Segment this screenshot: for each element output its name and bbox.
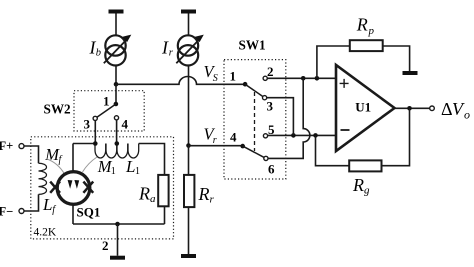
wire contact 2 to op-amp + input: [267, 77, 336, 79]
wire Rr to ground: [188, 207, 190, 254]
wire ground to Ir: [188, 14, 190, 36]
svg-text:F−: F−: [0, 205, 13, 219]
inductor L1 (tapped coil): [95, 144, 139, 159]
coil top wire (right part) to Ra: [139, 144, 165, 175]
svg-text:SW2: SW2: [44, 101, 72, 116]
output junction dot: [407, 106, 412, 111]
svg-text:g: g: [364, 185, 370, 197]
svg-text:I: I: [161, 38, 169, 58]
svg-text:SQ1: SQ1: [77, 205, 101, 220]
SW1 contact 3 circle: [263, 96, 267, 100]
op-amp output wire: [395, 107, 430, 109]
op-amp - symbol: [341, 129, 350, 131]
current source Ir: [178, 35, 198, 65]
wire ground to Ib: [115, 14, 117, 36]
wire contact 3 to - node: [267, 98, 294, 136]
svg-text:Δ: Δ: [441, 99, 453, 119]
josephson junction right (X): [83, 182, 93, 193]
ground bar (top, above Ir): [181, 10, 196, 14]
svg-text:r: r: [210, 193, 215, 205]
svg-text:3: 3: [267, 99, 274, 114]
svg-text:4.2K: 4.2K: [34, 227, 57, 239]
svg-text:S: S: [213, 73, 218, 84]
coil tap dot (contact 4 of SW2): [115, 141, 120, 146]
SW1 pole 1 arm: [245, 84, 263, 96]
wire Vr down to Rr: [188, 146, 190, 175]
svg-text:R: R: [356, 14, 368, 34]
bottom wire (node 2): [73, 223, 165, 225]
wire Ra bottom: [164, 206, 166, 224]
svg-text:F+: F+: [0, 139, 13, 153]
ground bar (Rr): [181, 254, 196, 258]
svg-text:o: o: [464, 108, 470, 122]
wire F+ to coil: [24, 146, 39, 163]
SW2 contact 4 circle: [114, 116, 118, 120]
josephson junction left (X): [50, 182, 60, 193]
wire SQUID top: [72, 144, 74, 172]
wire SQUID bottom: [72, 204, 74, 224]
svg-text:6: 6: [268, 162, 275, 177]
wire Ir down to node Vr: [188, 66, 190, 146]
output terminal circle: [430, 106, 435, 111]
wire Ib to node VS: [115, 66, 117, 85]
coil tap dot (contact 3 of SW2): [93, 141, 98, 146]
resistor Rg: [349, 160, 381, 171]
svg-text:4: 4: [122, 117, 129, 132]
node 2 junction dot: [115, 222, 120, 227]
junction dot (+ node, contact6 riser): [301, 76, 306, 81]
SW1 pole 2 pivot dot: [240, 144, 245, 149]
4.2K cryostat box: [31, 137, 174, 239]
junction dot (- node, Rg drop): [313, 133, 318, 138]
svg-text:R: R: [198, 184, 210, 204]
svg-text:2: 2: [102, 238, 109, 253]
coil top wire (left part): [73, 143, 95, 145]
svg-text:4: 4: [230, 130, 237, 145]
wire node 2 to ground: [117, 224, 119, 256]
SW2 contact 3 circle: [93, 116, 97, 120]
wire SW2 contact 3 down to coil tap: [94, 121, 96, 144]
svg-text:L: L: [125, 157, 135, 176]
wire contact 5 to op-amp - input: [268, 134, 336, 136]
svg-text:p: p: [368, 25, 375, 37]
op-amp U1: [336, 65, 395, 151]
wire Rg to output: [382, 108, 410, 165]
resistor Rp: [350, 40, 383, 51]
current source Ib: [105, 35, 125, 65]
svg-text:R: R: [352, 175, 364, 195]
svg-text:2: 2: [267, 64, 274, 79]
wire Vr to SW1 contact 4: [189, 145, 243, 147]
wire Rp to ground: [383, 46, 410, 71]
SW2 switch arm: [97, 104, 116, 117]
node VS junction dot: [114, 82, 119, 87]
node Vr junction dot: [186, 143, 191, 148]
svg-text:3: 3: [84, 116, 91, 131]
ground bar (node 2): [110, 256, 125, 260]
SW1 contact 5 circle: [263, 134, 267, 138]
junction dot (+ node, Rp riser): [315, 76, 320, 81]
inductor Lf: [39, 163, 47, 194]
squid arrows: [68, 180, 73, 189]
SW1 contact 6 circle: [264, 156, 268, 160]
ground bar (Rp): [403, 71, 418, 75]
svg-text:1: 1: [135, 166, 140, 177]
wire VS with hop over Ir wire: [116, 77, 245, 85]
SQUID SQ1 circle: [57, 172, 90, 205]
SW1 contact 2 circle: [263, 76, 267, 80]
wire coil to F-: [24, 194, 39, 211]
ground bar (top, above Ib): [109, 10, 124, 14]
SW2 pivot dot (contact 1): [114, 102, 119, 107]
coupling curve M1: [83, 157, 98, 172]
svg-text:1: 1: [230, 69, 237, 84]
wire SW2 contact 4 down to coil tap: [116, 120, 118, 144]
coupling curve Mf: [47, 159, 65, 174]
svg-text:R: R: [138, 183, 150, 203]
SW1 mechanical link: [254, 92, 256, 151]
svg-text:a: a: [150, 193, 156, 205]
svg-text:1: 1: [103, 94, 110, 109]
SW2 pole wire from node VS: [115, 84, 117, 104]
resistor Rr: [184, 175, 194, 207]
op-amp + symbol: [340, 79, 349, 88]
SW1 box: [224, 60, 286, 179]
svg-text:b: b: [96, 47, 101, 58]
junction dot (- node, contact3 drop): [291, 133, 296, 138]
svg-text:1: 1: [111, 166, 116, 177]
svg-text:L: L: [42, 195, 52, 214]
SW1 pole 2 arm: [243, 146, 264, 157]
resistor Rg branch (feedback): [316, 135, 350, 165]
svg-text:U1: U1: [355, 100, 371, 115]
SW1 pole 1 pivot dot: [243, 82, 248, 87]
svg-text:SW1: SW1: [239, 37, 266, 52]
resistor Rp branch: [317, 46, 350, 78]
wire contact 6 to + node with hop: [268, 78, 310, 158]
SW2 box: [74, 91, 144, 131]
resistor Ra: [158, 175, 168, 206]
svg-text:r: r: [213, 135, 217, 146]
